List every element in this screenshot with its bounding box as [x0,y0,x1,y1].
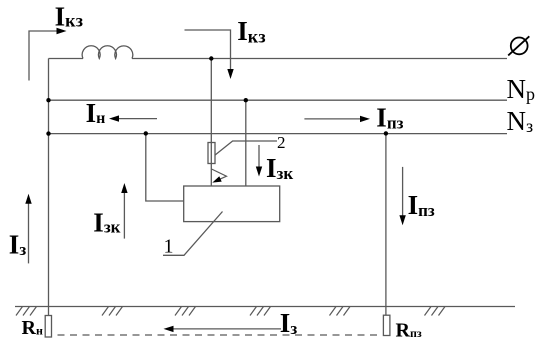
callout line to label 1 [163,212,223,256]
label phase O [508,36,529,55]
ground surface line [15,306,515,308]
node phase-fuse junction [209,56,213,60]
arrowhead In left [109,115,119,121]
arrow Ipz down shaft [402,167,404,218]
arrow Ikz mid bracket [185,30,231,71]
arrowhead Ikz mid down [227,69,233,79]
dashed return line [58,334,378,336]
arrow In shaft [117,118,157,120]
wire Nz to equipment box [146,133,184,201]
node Nz mid junction [144,131,148,135]
wire phase line left segment [49,58,84,60]
resistor Rpz [383,315,390,335]
node Np mid junction [244,98,248,102]
svg-text:1: 1 [164,236,174,258]
fuse FU element 2 [208,143,215,164]
arrow Ikz left bracket [29,31,59,81]
wire fuse drop from phase [210,59,212,187]
inductor coil [82,46,133,59]
breakdown arrow to case [212,169,227,180]
wire left vertical conductor [48,59,50,316]
arrowhead Iz up [25,194,31,204]
arrow Izk up shaft [123,191,125,239]
svg-text:2: 2 [277,133,286,152]
wire Np to equipment box [245,100,247,186]
arrow Iz bottom shaft [171,328,281,330]
arrowhead Ipz down [399,215,405,225]
wire Np line [49,99,508,101]
arrow Ipz top shaft [304,118,362,120]
arrow Iz up shaft [28,201,30,263]
node Nz left junction [46,131,50,135]
arrowhead Ikz left [57,28,67,34]
arrowhead Izk up [121,183,127,193]
node Np left junction [46,98,50,102]
node Nz right junction [384,131,388,135]
ground hatching [16,307,445,316]
wire Nz line [49,133,508,135]
arrowhead Iz bottom left [164,326,174,332]
wire right vertical to Rpz [385,133,387,315]
wire phase line right segment [132,58,507,60]
arrow Izk down shaft [258,145,260,169]
callout line to label 2 [215,141,277,155]
arrowhead Izk down [256,167,262,177]
arrowhead Ipz top right [360,116,370,122]
resistor Rn [45,316,51,338]
equipment box 1 [184,186,280,222]
